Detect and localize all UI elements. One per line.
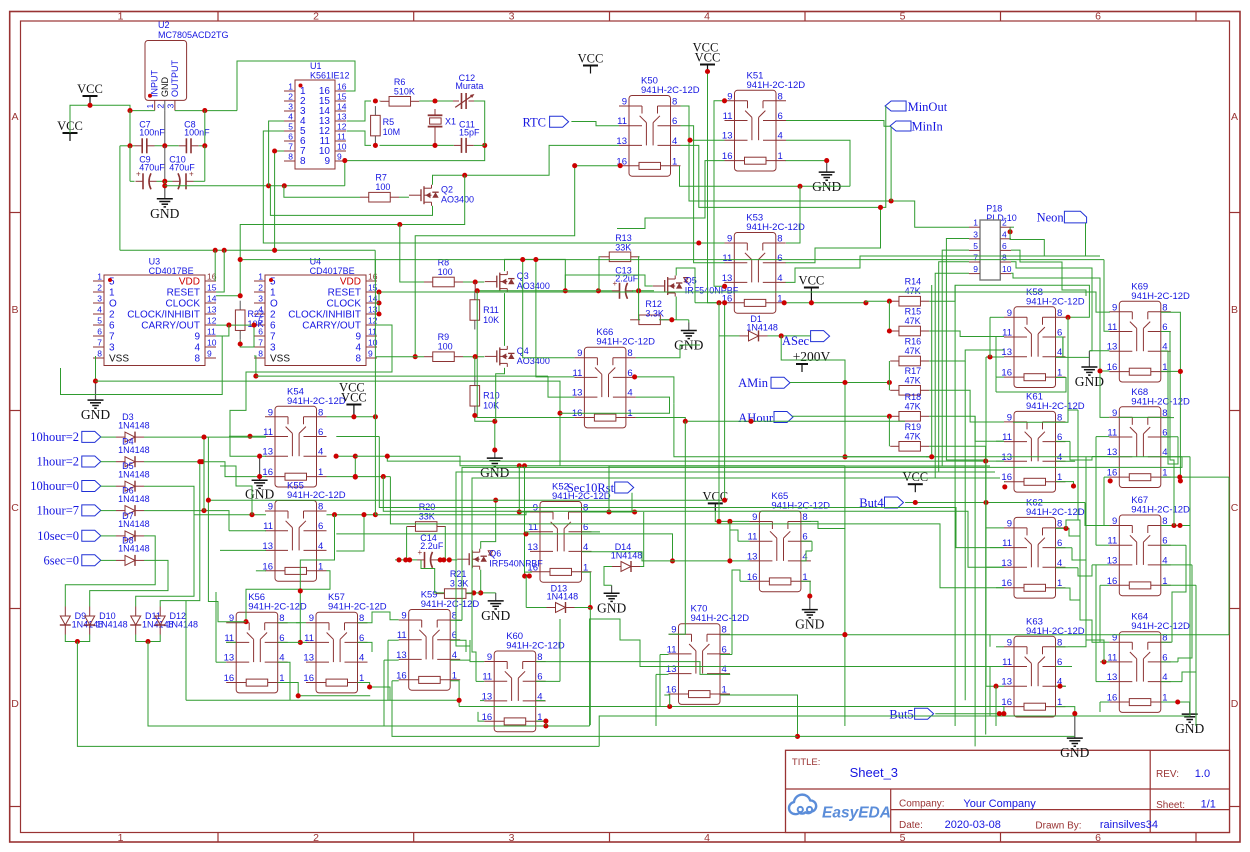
wire rail U2 pin1 xyxy=(127,108,154,113)
wire K63 pin9 in xyxy=(996,646,1004,648)
+200V flag xyxy=(793,349,831,372)
svg-text:7: 7 xyxy=(97,338,102,348)
wire k63 pin9 drop xyxy=(989,635,991,647)
svg-text:5: 5 xyxy=(288,122,293,132)
svg-text:2: 2 xyxy=(288,92,293,102)
wire osc right xyxy=(474,101,485,145)
svg-text:B: B xyxy=(1231,304,1238,316)
wire U4 carry to K54 pin13 xyxy=(230,325,392,456)
wire K69 pin4 xyxy=(1161,350,1168,352)
title block xyxy=(786,750,1230,832)
wire k68 pin16 drop xyxy=(1104,477,1109,525)
svg-text:10sec=0: 10sec=0 xyxy=(37,529,79,543)
diode D10 xyxy=(84,607,127,635)
svg-text:47K: 47K xyxy=(905,401,921,411)
svg-text:941H-2C-12D: 941H-2C-12D xyxy=(747,80,806,91)
wire U1 pin5 to K53 pin9 xyxy=(263,131,724,246)
svg-text:4: 4 xyxy=(777,273,782,284)
svg-text:1N4148: 1N4148 xyxy=(547,592,579,602)
wire vert 685 to K70 xyxy=(669,421,686,634)
svg-text:11: 11 xyxy=(667,644,677,655)
wire K62 pin16 in xyxy=(996,587,1004,589)
svg-text:9: 9 xyxy=(268,502,273,513)
wire K67 pin1 xyxy=(1161,584,1196,586)
wire But5 xyxy=(935,707,1006,717)
svg-text:3: 3 xyxy=(509,11,515,23)
wire K54 pin16 xyxy=(256,474,266,479)
svg-text:14: 14 xyxy=(337,102,347,112)
wire K69 pin13 in xyxy=(1089,350,1109,352)
wire K68 pin9 up xyxy=(1097,368,1109,417)
svg-text:R12: R12 xyxy=(645,299,662,309)
wire k65 pin16 link xyxy=(732,570,740,655)
ground K65 xyxy=(795,596,824,632)
resistor R10 xyxy=(470,376,500,415)
svg-text:1: 1 xyxy=(778,151,783,162)
svg-text:13: 13 xyxy=(368,305,378,315)
svg-text:Q2: Q2 xyxy=(441,185,453,195)
svg-text:8: 8 xyxy=(258,349,263,359)
wire P18 pin7 xyxy=(939,262,995,472)
VCC flag K54 xyxy=(339,381,367,417)
wire long 472 xyxy=(456,472,995,660)
wire seg k61 xyxy=(1068,409,1078,411)
wire D12 top xyxy=(160,462,200,607)
wire K66 pin8 xyxy=(636,345,700,358)
wire K51 pin13 link xyxy=(687,138,724,143)
svg-text:15: 15 xyxy=(337,92,347,102)
wire Neon link xyxy=(1010,223,1085,256)
svg-text:CARRY/OUT: CARRY/OUT xyxy=(141,321,200,332)
svg-text:6: 6 xyxy=(1095,832,1101,844)
svg-text:8: 8 xyxy=(1162,302,1167,313)
wire K50 pin1 run xyxy=(680,166,851,189)
wire mid bus 523 xyxy=(390,477,1004,588)
svg-text:GND: GND xyxy=(481,608,510,623)
wire C14 left xyxy=(395,557,417,562)
wire k64 pin8 up xyxy=(1172,545,1186,642)
wire elec rail c xyxy=(194,180,205,182)
net flag AHour xyxy=(738,411,793,425)
svg-text:4: 4 xyxy=(672,136,677,147)
svg-text:10: 10 xyxy=(337,142,347,152)
wire K70 pin1 to GND xyxy=(720,695,1075,739)
junction K60 pin1 bus xyxy=(543,723,548,728)
svg-text:1N4148: 1N4148 xyxy=(118,445,150,455)
wire K65 pin16 xyxy=(740,580,749,582)
svg-text:9: 9 xyxy=(229,613,234,624)
svg-text:9: 9 xyxy=(355,332,361,343)
wire K60 pin4 xyxy=(536,700,545,702)
svg-text:2.2uF: 2.2uF xyxy=(420,541,444,551)
svg-text:2: 2 xyxy=(313,11,319,23)
svg-text:8: 8 xyxy=(318,502,323,513)
svg-text:5: 5 xyxy=(900,11,906,23)
wire K66 pin6 xyxy=(632,374,674,403)
diode D7 xyxy=(116,511,150,542)
wire k61 pin6 link xyxy=(1070,441,1092,460)
wire K51 pin9 to K53 pin13 xyxy=(714,98,727,286)
wire vert 990 xyxy=(989,317,991,357)
svg-text:1: 1 xyxy=(672,156,677,167)
wire K60 pin13 xyxy=(480,700,484,702)
diode D6 xyxy=(116,486,150,516)
wire U1 pin12 to rail xyxy=(347,131,372,145)
diode D4 xyxy=(116,437,150,468)
wire mid bus 514 xyxy=(375,512,530,515)
wire seg xyxy=(926,456,932,458)
svg-text:9: 9 xyxy=(727,91,732,102)
svg-text:2: 2 xyxy=(155,104,165,109)
svg-text:15: 15 xyxy=(207,283,217,293)
wire elec rail a xyxy=(130,180,135,182)
VCC flag K53 xyxy=(799,274,825,304)
svg-text:8: 8 xyxy=(1057,308,1062,319)
wire osc top rail b xyxy=(419,98,453,103)
wire R22 bottom loop xyxy=(240,325,254,347)
svg-text:3.3K: 3.3K xyxy=(645,308,664,318)
svg-text:1N4148: 1N4148 xyxy=(118,544,150,554)
diode D14 xyxy=(611,542,643,572)
svg-text:U4: U4 xyxy=(310,256,322,266)
net flag 10hour=2 xyxy=(30,430,101,444)
wire vert 1062 xyxy=(1062,337,1064,357)
diode D8 xyxy=(116,535,150,566)
wire U3 reset stub xyxy=(216,250,224,292)
wire vss rail 376 xyxy=(256,375,548,377)
wire R7 to Q2 gate xyxy=(399,196,409,198)
wire k67 pin16 drop xyxy=(1099,585,1101,642)
svg-text:R7: R7 xyxy=(375,173,387,183)
svg-text:941H-2C-12D: 941H-2C-12D xyxy=(771,501,830,512)
svg-text:510K: 510K xyxy=(394,87,415,97)
wire K53 pin16 drop xyxy=(724,303,726,500)
svg-text:16: 16 xyxy=(1001,472,1012,483)
wire gnd run right xyxy=(165,183,345,188)
svg-text:6: 6 xyxy=(778,111,783,122)
net flag But5 xyxy=(889,708,933,722)
wire K59 pin8 xyxy=(450,619,462,621)
svg-text:9: 9 xyxy=(207,349,212,359)
wire K62 pin1 xyxy=(1056,588,1081,600)
wire U4 pin8 to R9 xyxy=(376,356,424,358)
wire R12 gnd link xyxy=(676,319,689,321)
wire vert 674 xyxy=(674,403,932,457)
svg-text:941H-2C-12D: 941H-2C-12D xyxy=(746,222,805,233)
svg-text:9: 9 xyxy=(337,152,342,162)
wire K51 pin6 MinIn xyxy=(786,121,890,127)
svg-text:941H-2C-12D: 941H-2C-12D xyxy=(421,599,480,610)
wire R10 gnd xyxy=(472,413,497,453)
wire K59 pin6 xyxy=(450,640,466,652)
svg-text:CLOCK/INHIBIT: CLOCK/INHIBIT xyxy=(127,310,200,321)
VCC flag 2 xyxy=(57,119,83,141)
wire K52 pin1 xyxy=(582,572,593,610)
svg-text:4: 4 xyxy=(1057,347,1062,358)
net flag 10hour=0 xyxy=(30,479,101,493)
wire k64 pin4 up xyxy=(1182,585,1196,681)
wire K57 pin1 xyxy=(358,683,391,701)
wire vert 965 xyxy=(964,361,966,700)
resistor R7 xyxy=(360,173,399,202)
wire d13 drop xyxy=(589,608,591,726)
svg-text:4: 4 xyxy=(1002,229,1007,239)
svg-text:10: 10 xyxy=(368,338,378,348)
wire across K68 top xyxy=(1118,416,1162,418)
net flag Neon xyxy=(1037,211,1087,225)
wire rail 259 xyxy=(238,257,1104,262)
wire K55 pin11 xyxy=(229,530,266,532)
wire K62 pin6 xyxy=(1056,547,1073,549)
wire K64 pin16 in xyxy=(1100,701,1109,703)
svg-text:10: 10 xyxy=(1002,264,1012,274)
svg-text:941H-2C-12D: 941H-2C-12D xyxy=(691,613,750,624)
svg-text:4: 4 xyxy=(359,653,364,664)
wire K55 pin8 drop xyxy=(300,515,334,591)
wire k62 pin1 to k64 xyxy=(1080,600,1100,642)
ground R12 xyxy=(674,323,703,353)
svg-text:R16: R16 xyxy=(905,337,922,347)
svg-text:9: 9 xyxy=(268,407,273,418)
label Q6 xyxy=(489,549,543,569)
resistor R8 xyxy=(424,257,463,287)
svg-text:6: 6 xyxy=(672,116,677,127)
relay K55 xyxy=(262,481,345,582)
wire K56 pin13 in xyxy=(216,661,226,663)
EasyEDA logo xyxy=(789,795,891,822)
svg-text:3: 3 xyxy=(97,294,102,304)
relay K57 xyxy=(303,592,386,693)
svg-text:13: 13 xyxy=(666,664,677,675)
svg-text:A: A xyxy=(1231,111,1238,123)
wire k61 pin4 j xyxy=(1074,460,1076,462)
wire C7 top xyxy=(129,111,131,146)
svg-text:16: 16 xyxy=(396,670,407,681)
wire K58 pin11 in xyxy=(996,336,1004,338)
svg-text:2020-03-08: 2020-03-08 xyxy=(945,819,1001,831)
label Q2 xyxy=(441,185,474,205)
wire K68 pin16 in xyxy=(1104,477,1113,483)
svg-text:INPUT: INPUT xyxy=(150,69,160,97)
svg-text:TITLE:: TITLE: xyxy=(792,757,821,768)
wire K69 pin8 drop xyxy=(1161,312,1181,371)
wire bus 706 xyxy=(459,704,1004,709)
svg-text:D: D xyxy=(1231,698,1239,710)
wire R8 gate feed xyxy=(400,225,424,283)
svg-text:R14: R14 xyxy=(905,277,922,287)
svg-text:Q6: Q6 xyxy=(489,549,501,559)
wire bus 726 xyxy=(148,642,590,727)
wire k58 links xyxy=(995,350,997,377)
svg-text:4: 4 xyxy=(288,112,293,122)
svg-text:7: 7 xyxy=(270,332,276,343)
wire K64 pin13 in xyxy=(1096,681,1109,683)
junction C13 rail xyxy=(563,288,568,293)
svg-text:1hour=7: 1hour=7 xyxy=(37,504,79,518)
svg-text:5: 5 xyxy=(900,832,906,844)
wire U4 pin bus xyxy=(376,292,382,317)
transistor Q3 xyxy=(485,271,515,292)
resistor R21 xyxy=(436,569,475,598)
wire Q4 source xyxy=(496,368,505,421)
svg-text:941H-2C-12D: 941H-2C-12D xyxy=(506,641,565,652)
svg-text:4: 4 xyxy=(318,541,323,552)
wire D14 right xyxy=(640,512,644,567)
wire K58 pin13 in xyxy=(986,354,1004,359)
wire K53 pin6 xyxy=(786,205,884,263)
svg-text:10K: 10K xyxy=(483,315,499,325)
label Q5 xyxy=(685,276,739,296)
svg-text:9: 9 xyxy=(1007,637,1012,648)
svg-text:R21: R21 xyxy=(450,569,467,579)
label Q4 xyxy=(517,346,550,366)
svg-text:9: 9 xyxy=(1007,308,1012,319)
wire K61 pin1 xyxy=(1056,482,1077,489)
ground K51 xyxy=(812,161,841,195)
wire K64 pin6 xyxy=(1161,661,1178,663)
wire C13 left xyxy=(596,288,612,293)
wire P18 pin2 stub xyxy=(1011,226,1014,228)
wire R13 left xyxy=(599,257,601,291)
svg-text:VCC: VCC xyxy=(339,381,365,395)
svg-text:1N4148: 1N4148 xyxy=(746,322,778,332)
wire vcc rail drop xyxy=(374,260,376,417)
wire K64 pin8 xyxy=(1161,641,1172,643)
wire D11 D12 join xyxy=(136,635,161,645)
wire K67 pin16 in xyxy=(1100,584,1109,586)
svg-text:9: 9 xyxy=(622,97,627,108)
wire vss rail xyxy=(96,381,563,466)
wire K60 pin1 xyxy=(536,719,549,726)
ground near C9/C10 xyxy=(150,186,179,221)
svg-text:12: 12 xyxy=(368,316,378,326)
wire gnd mid xyxy=(164,146,166,182)
wire flag2 to D4 xyxy=(101,461,117,463)
svg-text:R8: R8 xyxy=(438,257,450,267)
wire D13 in xyxy=(526,607,546,609)
svg-text:6: 6 xyxy=(270,321,276,332)
svg-text:6: 6 xyxy=(1002,241,1007,251)
wire VCC K65 pin9 xyxy=(715,511,749,524)
wire R17 right xyxy=(929,390,1004,422)
wire Q3 drain xyxy=(505,259,566,290)
wire RTC to K50 pin11 xyxy=(571,122,619,126)
ground K54 xyxy=(245,456,274,502)
svg-text:GND: GND xyxy=(245,487,274,502)
svg-text:2: 2 xyxy=(313,832,319,844)
wire D11 top xyxy=(136,486,194,606)
svg-text:941H-2C-12D: 941H-2C-12D xyxy=(248,602,307,613)
ground K58/K69 xyxy=(1075,351,1104,389)
junction K52 pin9 xyxy=(517,509,522,514)
svg-text:470uF: 470uF xyxy=(169,163,195,173)
svg-text:16: 16 xyxy=(337,82,347,92)
wire R18 right xyxy=(929,416,1004,441)
wire K66 pin9 xyxy=(520,257,574,358)
wire k62 pin8 up xyxy=(1066,410,1078,528)
relay K64 xyxy=(1107,612,1190,713)
wire D3 out xyxy=(144,436,266,438)
resistor R15 xyxy=(890,307,929,336)
wire K59 pin13 xyxy=(384,659,399,661)
svg-text:1: 1 xyxy=(97,272,102,282)
svg-text:9: 9 xyxy=(1007,518,1012,529)
wire K65 pin6 xyxy=(801,540,812,542)
junction K55 pin8 row xyxy=(361,512,366,517)
wire K62 pin13 in xyxy=(986,566,1004,568)
wire U2 gnd pin xyxy=(164,111,166,146)
wire Q5 drain xyxy=(676,268,695,303)
wire to R7 xyxy=(284,186,360,197)
wire VCC to U2 input xyxy=(70,103,130,133)
counter U3 xyxy=(93,256,217,365)
svg-text:15: 15 xyxy=(368,283,378,293)
relay K68 xyxy=(1107,387,1190,488)
svg-text:941H-2C-12D: 941H-2C-12D xyxy=(1131,621,1190,632)
wire K58 pin link2 xyxy=(996,337,1004,351)
wire K60 pin6 xyxy=(536,680,560,682)
svg-text:941H-2C-12D: 941H-2C-12D xyxy=(641,85,700,96)
svg-text:1: 1 xyxy=(118,832,124,844)
wire K67 pin11 in xyxy=(1096,544,1109,546)
diode D3 xyxy=(116,412,150,443)
relay K54 xyxy=(262,386,345,487)
wire R18-R19 xyxy=(888,416,890,446)
svg-text:O: O xyxy=(109,299,117,310)
svg-text:9: 9 xyxy=(309,613,314,624)
wire D4 out xyxy=(144,459,256,476)
svg-text:1N4148: 1N4148 xyxy=(167,620,199,630)
svg-text:7: 7 xyxy=(973,253,978,263)
wire D14 left xyxy=(604,567,612,586)
svg-text:13: 13 xyxy=(396,650,407,661)
wire K63 pin8 xyxy=(1056,646,1069,648)
wire k64 pin6 up xyxy=(1178,565,1192,662)
wire k56 drop xyxy=(215,592,217,662)
net flag 1hour=7 xyxy=(37,504,101,518)
wire k63 pin13 drop xyxy=(995,686,997,726)
wire K68 pin13 in xyxy=(1092,456,1109,458)
svg-text:1: 1 xyxy=(318,561,323,572)
VCC flag But4 xyxy=(902,470,928,492)
svg-text:16: 16 xyxy=(303,673,314,684)
wire K67 pin13 in xyxy=(1092,564,1109,566)
wire AHour xyxy=(792,414,892,419)
wire K54 pin6 xyxy=(336,436,379,438)
wire K66 pin13 xyxy=(548,376,574,397)
svg-text:13: 13 xyxy=(337,112,347,122)
resistor R19 xyxy=(890,422,929,451)
VCC flag top-middle xyxy=(693,41,721,72)
wire P18 pin3 xyxy=(946,239,985,461)
wire K55 pin9 in xyxy=(240,512,266,517)
svg-text:4: 4 xyxy=(627,388,632,399)
svg-text:CLOCK: CLOCK xyxy=(327,299,362,310)
wire K67 pin6 xyxy=(1161,544,1186,546)
ground Q4 xyxy=(480,450,509,480)
wire K55 pin6 bus xyxy=(336,531,675,563)
resistor R18 xyxy=(890,392,929,421)
svg-text:11: 11 xyxy=(397,630,407,641)
wire vert 1229 xyxy=(1228,477,1230,635)
wire P18 pin9 xyxy=(935,273,1000,478)
wire K52 pin11 jog xyxy=(526,532,530,534)
svg-text:9: 9 xyxy=(1112,516,1117,527)
wire C13 right xyxy=(632,288,654,293)
svg-text:941H-2C-12D: 941H-2C-12D xyxy=(1131,505,1190,516)
ground K63 xyxy=(1060,714,1089,761)
svg-text:VCC: VCC xyxy=(693,41,719,55)
